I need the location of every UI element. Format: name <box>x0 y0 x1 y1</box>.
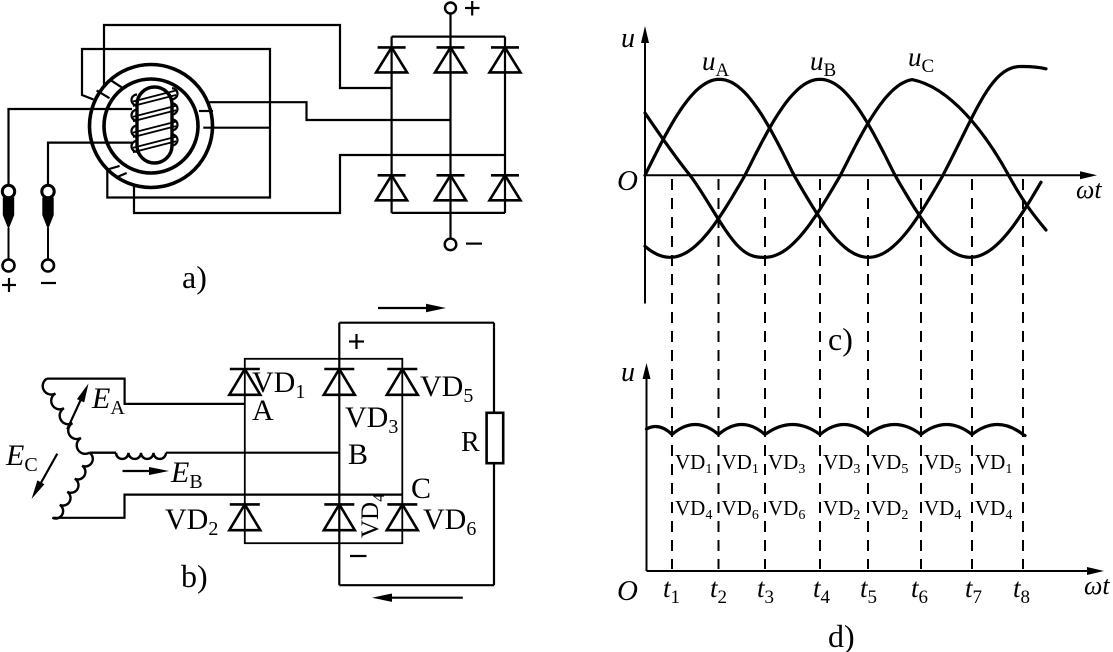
svg-text:A: A <box>252 394 274 427</box>
dashed line t3 <box>764 179 766 569</box>
wire + rail to load <box>339 322 494 324</box>
svg-text:a): a) <box>182 259 207 295</box>
terminal DC - <box>445 239 457 251</box>
dashed line t2 <box>718 179 720 569</box>
arrow EB direction <box>123 470 161 472</box>
wire brush positive to terminal <box>8 228 10 260</box>
svg-text:d): d) <box>828 618 855 652</box>
wire rectifier column <box>391 37 393 213</box>
diode VD1 <box>230 368 260 371</box>
wire - terminal lead <box>449 213 451 239</box>
stator slot right <box>199 110 213 112</box>
diode rectifier top 3 <box>491 46 519 49</box>
wire rotor brush + lead <box>9 109 133 185</box>
diode rectifier top 1 <box>378 46 406 49</box>
wire DC - rail <box>392 212 505 214</box>
wire phase C (stator bottom to rectifier column 3) <box>134 155 505 213</box>
arrow current bottom <box>382 597 463 599</box>
svg-text:u: u <box>621 23 635 54</box>
dashed line t5 <box>867 179 869 569</box>
diode rectifier bottom 3 <box>491 174 519 177</box>
diode rectifier bottom 2 <box>437 174 465 177</box>
axis u (panel d) <box>646 368 648 571</box>
wire rectifier column <box>449 37 451 213</box>
svg-text:ωt: ωt <box>1084 571 1110 600</box>
svg-text:b): b) <box>181 558 208 594</box>
label - (DC output) <box>466 243 482 245</box>
wire load branch <box>493 323 495 586</box>
wire bridge center column <box>338 323 340 586</box>
diode VD3 <box>324 368 354 371</box>
wire phase C to node C <box>52 495 402 518</box>
svg-text:c): c) <box>828 321 853 357</box>
rotor winding turns <box>132 95 138 106</box>
dashed line t4 <box>819 179 821 569</box>
dashed line t8 <box>1022 179 1024 569</box>
winding EA <box>43 379 90 454</box>
bridge box <box>245 359 402 543</box>
stator slot upper-left <box>111 80 122 87</box>
axis u (panel c) <box>644 32 646 304</box>
wire phase A to node A <box>47 379 245 404</box>
wire rotor brush - lead <box>48 143 132 185</box>
diode rectifier bottom 1 <box>378 174 406 177</box>
dashed line t6 <box>920 179 922 569</box>
wire phase A top (stator upper-left slot to rectifier column 1) <box>104 25 392 88</box>
curve uB <box>645 79 1041 257</box>
label - (field terminal) <box>41 282 56 284</box>
svg-text:C: C <box>411 472 431 505</box>
diode VD6 <box>387 503 417 506</box>
svg-text:B: B <box>348 438 368 471</box>
terminal positive <box>3 260 15 272</box>
wire + terminal lead <box>449 14 451 37</box>
winding EC <box>52 453 92 519</box>
curve uC <box>645 80 1046 258</box>
diode VD4 <box>324 503 354 506</box>
winding EB <box>90 452 117 454</box>
wire stator link (upper-left slot 2 to x=270 vertical to lower-left slot) <box>82 49 270 198</box>
brush positive <box>3 198 13 228</box>
svg-text:ωt: ωt <box>1076 175 1102 204</box>
diode VD2 <box>230 503 260 506</box>
svg-text:R: R <box>461 427 480 458</box>
terminal DC + <box>445 3 456 14</box>
slip ring negative <box>42 185 54 197</box>
wire rectifier column <box>504 37 506 213</box>
dashed line t1 <box>671 179 673 569</box>
arrow EA direction <box>67 392 84 430</box>
diode rectifier top 2 <box>437 46 465 49</box>
svg-text:O: O <box>617 575 638 607</box>
svg-text:u: u <box>621 357 635 388</box>
dashed line t7 <box>971 179 973 569</box>
stator slot lower-left <box>108 166 120 170</box>
diode VD5 <box>387 368 417 371</box>
arrow current top <box>378 307 436 309</box>
curve rectified output <box>647 425 1026 436</box>
wire phase B (stator right slot to rectifier column 2) <box>208 102 451 120</box>
wire DC + rail <box>392 35 505 37</box>
brush negative <box>43 198 53 228</box>
curve uA <box>645 66 1046 257</box>
stator outer circle <box>90 65 213 188</box>
axis wt (panel d) <box>647 570 1096 572</box>
wire stator right tap (to vertical at x=270) <box>203 127 270 129</box>
axis wt (panel c) <box>645 174 1088 176</box>
label - (bridge output) <box>350 555 367 557</box>
resistor R <box>487 413 504 463</box>
stator inner circle <box>104 79 198 173</box>
label VD4 (rotated) <box>357 493 388 538</box>
wire brush negative to terminal <box>47 228 49 260</box>
arrow EC direction <box>37 454 58 491</box>
wire phase B to node B <box>166 452 339 454</box>
slip ring positive <box>2 185 14 197</box>
terminal negative <box>42 260 54 272</box>
wire - rail to load <box>339 584 494 586</box>
rotor pole (capsule) <box>137 87 172 163</box>
label + (bridge output) <box>349 340 364 342</box>
svg-text:O: O <box>617 165 638 197</box>
label + (DC output) <box>465 7 480 9</box>
label + (field terminal) <box>2 284 16 286</box>
